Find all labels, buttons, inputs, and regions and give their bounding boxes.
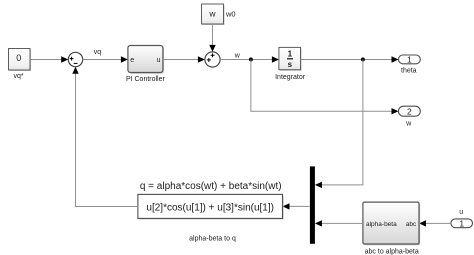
- wire Mux output to Fcn block: [283, 203, 310, 209]
- svg-text:e: e: [130, 57, 134, 64]
- Fcn block u[2]*cos(u[1]) + u[3]*sin(u[1]) with title: [138, 181, 284, 243]
- svg-text:PI Controller: PI Controller: [126, 76, 166, 83]
- svg-text:q = alpha*cos(wt) + beta*sin(w: q = alpha*cos(wt) + beta*sin(wt): [140, 181, 282, 192]
- svg-text:u: u: [157, 57, 161, 64]
- outport 1 theta: [399, 55, 421, 75]
- svg-text:1: 1: [407, 55, 412, 65]
- Integrator block 1/s: [275, 47, 306, 81]
- svg-text:theta: theta: [401, 68, 417, 75]
- wire theta branch: dot down and left into Mux top input: [315, 60, 363, 189]
- mux Mux (black bar): [310, 166, 315, 243]
- outport 2 w: [399, 106, 421, 127]
- subsystem block abc to alpha-beta: [363, 202, 420, 255]
- inport 1 u: [451, 209, 473, 228]
- wire vq* to sum1: [30, 56, 68, 62]
- wire Fcn output feedback to sum1 (left and up): [72, 67, 138, 207]
- svg-text:Integrator: Integrator: [275, 74, 306, 81]
- svg-text:w: w: [208, 9, 216, 19]
- wire w branch: dot to outport 2: [251, 60, 399, 115]
- wire Integrator to outport theta, junction dot: [301, 56, 399, 62]
- wire sum1 to PI Controller, label vq: [83, 49, 128, 63]
- svg-text:w0: w0: [225, 9, 236, 18]
- svg-text:s: s: [288, 60, 293, 69]
- svg-text:2: 2: [407, 107, 412, 117]
- svg-text:alpha-beta: alpha-beta: [366, 221, 397, 228]
- wire PI Controller to sum2: [163, 56, 205, 62]
- svg-text:0: 0: [16, 53, 21, 63]
- wire inport u to abc-to-alpha-beta block: [419, 220, 451, 226]
- svg-text:w: w: [234, 53, 241, 60]
- svg-text:u[2]*cos(u[1]) + u[3]*sin(u[1]: u[2]*cos(u[1]) + u[3]*sin(u[1]): [146, 202, 274, 213]
- constant block w0 (value w): [202, 4, 236, 25]
- svg-text:alpha-beta to q: alpha-beta to q: [189, 236, 236, 243]
- svg-text:1: 1: [459, 218, 464, 228]
- svg-text:1: 1: [288, 50, 293, 59]
- wire w0 to sum2: [209, 24, 215, 52]
- wire abc-to-alpha-beta to Mux second input: [315, 220, 363, 226]
- svg-text:abc: abc: [406, 221, 417, 228]
- sum block S2 (++): [205, 52, 220, 67]
- PI Controller block: [126, 46, 166, 84]
- svg-text:abc to alpha-beta: abc to alpha-beta: [365, 248, 419, 255]
- svg-text:vq*: vq*: [14, 73, 24, 80]
- svg-text:u: u: [459, 209, 463, 216]
- sum block S1 (+-): [68, 52, 82, 66]
- svg-text:w: w: [405, 120, 412, 127]
- svg-text:vq: vq: [94, 49, 102, 56]
- constant block vq* (value 0): [9, 49, 32, 81]
- wire sum2 to Integrator, label w, junction dot: [220, 53, 279, 63]
